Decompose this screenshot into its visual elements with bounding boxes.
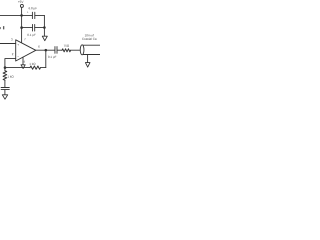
wire C3 to R3	[57, 49, 62, 51]
svg-text:3: 3	[11, 38, 13, 42]
wire pin3 input	[0, 43, 16, 45]
svg-text:+: +	[17, 43, 19, 47]
svg-text:2: 2	[12, 52, 14, 56]
wire C2 right lead	[35, 27, 45, 29]
wire pin2 input corner	[5, 59, 16, 68]
svg-text:0.1 µF: 0.1 µF	[27, 33, 36, 37]
wire output pin6	[36, 49, 55, 51]
svg-text:75Ω: 75Ω	[64, 44, 70, 48]
node junction rail	[20, 14, 23, 17]
svg-text:+5V: +5V	[18, 0, 25, 4]
svg-text:1 kΩ: 1 kΩ	[29, 62, 36, 66]
svg-text:0.1 µF: 0.1 µF	[48, 55, 57, 59]
wire +5V stub down	[21, 7, 23, 15]
wire V+ vertical	[21, 15, 23, 43]
wire feedback right lead	[41, 67, 46, 69]
node junction C2 right	[43, 26, 46, 29]
ground G3 op-amp	[21, 65, 25, 69]
wire feedback vertical	[45, 50, 47, 67]
ground G1	[42, 36, 47, 41]
resistor R3 75ohm zigzag	[62, 49, 71, 52]
wire feedback left lead	[5, 67, 30, 69]
ground G4 bottom left	[2, 95, 7, 99]
label cropped net text left edge	[3, 26, 4, 29]
capacitor C2 0.1uF plates	[32, 24, 34, 31]
svg-text:−: −	[17, 54, 19, 58]
wire C2 left lead	[22, 27, 33, 29]
capacitor C1 6.8uF plates	[31, 12, 33, 18]
node junction C2 left	[20, 26, 23, 29]
wire right vertical down	[43, 15, 45, 36]
svg-text:+: +	[27, 10, 29, 14]
svg-text:4: 4	[24, 60, 26, 64]
capacitor C4 plates	[1, 87, 9, 89]
terminal +5V circle	[20, 4, 23, 7]
svg-text:7: 7	[24, 37, 26, 41]
wire C1 right lead	[35, 14, 45, 16]
wire R3 to coax	[71, 49, 81, 51]
wire coax shield stub	[87, 55, 89, 63]
op-amp U1 triangle	[16, 40, 36, 61]
ground G2 coax	[85, 63, 90, 68]
wire R2 to C4	[4, 80, 6, 87]
wire C4 to ground	[4, 90, 6, 95]
svg-text:1 kΩ: 1 kΩ	[7, 75, 14, 79]
svg-text:Coaxial Ca: Coaxial Ca	[82, 37, 97, 41]
resistor R1 1k feedback zigzag	[30, 66, 41, 69]
svg-text:6: 6	[38, 45, 40, 49]
coax cable end ellipse	[80, 45, 84, 55]
wire +5V rail top horizontal	[0, 14, 32, 16]
wire pin4 down	[22, 57, 24, 65]
node output junction	[45, 49, 48, 52]
node feedback left junction	[4, 66, 7, 69]
wire down to R2	[4, 68, 6, 71]
capacitor C3 0.1uF plates	[54, 47, 56, 54]
resistor R2 1k vertical zigzag	[3, 71, 7, 81]
svg-text:6.8 µF: 6.8 µF	[29, 6, 38, 10]
coax cable cylinder body	[82, 44, 100, 46]
